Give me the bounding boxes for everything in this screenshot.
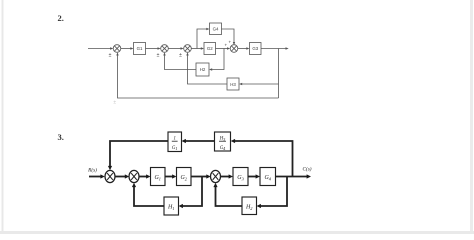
block H3/G4: [215, 132, 231, 151]
svg-text:±: ±: [157, 53, 160, 59]
block H1: [164, 197, 179, 215]
label R(s): [87, 166, 97, 173]
wire H1 pickoff down-left into H1: [179, 177, 203, 209]
wire G1 to G2: [165, 174, 177, 178]
block G2: [204, 43, 216, 55]
wire outer feedback loop to S1 bottom: [116, 52, 278, 98]
label C(s): [303, 166, 312, 173]
svg-text:±: ±: [113, 100, 116, 106]
page bottom edge shading: [0, 231, 474, 234]
wire S2 to G1: [139, 174, 151, 178]
svg-text:+: +: [224, 43, 227, 48]
wire S4 to G3: [238, 47, 250, 49]
svg-text:C(s): C(s): [303, 166, 312, 173]
svg-text:H2: H2: [245, 205, 253, 211]
faint ghost mark: [113, 100, 116, 106]
wire G1 to S2: [146, 47, 161, 49]
wire output to C(s): [276, 174, 312, 178]
block H3: [227, 78, 239, 90]
wire output pickoff down for H3 and outer loop: [278, 49, 280, 99]
wire H2 pickoff down-left: [209, 49, 224, 71]
wire H1 to S2 bottom: [132, 183, 164, 206]
block 1/G1: [168, 132, 182, 152]
wire H3 to S3 bottom: [186, 52, 227, 84]
svg-text:+: +: [228, 40, 231, 45]
problem number 2.: [58, 13, 64, 23]
svg-text:G1: G1: [172, 146, 178, 151]
sign label S1: [109, 53, 112, 59]
svg-text:G1: G1: [154, 175, 161, 181]
wire G4 to S4 top: [222, 29, 236, 45]
svg-text:±: ±: [179, 53, 182, 59]
svg-text:R(s): R(s): [87, 166, 97, 173]
summing junction S3: [211, 170, 221, 182]
wire 1/G1 to S1 top: [108, 141, 168, 170]
wire S1 to S2: [115, 174, 129, 178]
block G2: [177, 168, 192, 186]
summing junction S1: [113, 45, 121, 53]
summing junction S2: [129, 170, 139, 182]
plus sign left input S4: [224, 43, 227, 48]
wire G2 to S3: [191, 174, 211, 178]
block G1: [134, 43, 146, 55]
wire into H3: [239, 83, 279, 85]
wire top pickoff up-left into H3/G4 block: [231, 139, 293, 177]
svg-text:G4: G4: [220, 146, 226, 151]
block H2: [242, 197, 257, 215]
svg-text:H1: H1: [167, 205, 175, 211]
summing junction S3: [184, 45, 192, 53]
wire input to S1: [89, 174, 105, 178]
summing junction S1: [105, 170, 115, 182]
svg-text:G4: G4: [264, 175, 271, 181]
wire G2 to S4: [216, 47, 231, 49]
wire S3 to G3: [220, 174, 233, 178]
wire H3/G4 to 1/G1 block: [182, 139, 215, 143]
block G4: [210, 23, 222, 35]
block G1: [151, 168, 166, 186]
block H2: [196, 63, 209, 76]
block G4: [260, 168, 276, 186]
wire H2 to S3 bottom: [213, 183, 242, 206]
wire S3 to G2: [191, 47, 204, 49]
wire input to S1: [88, 47, 113, 49]
svg-text:G3: G3: [252, 46, 258, 51]
wire G3 to G4: [248, 174, 260, 178]
sign label S3: [179, 53, 182, 59]
wire S1 to G1: [121, 47, 134, 49]
wire H2 to S2 bottom: [163, 52, 196, 69]
svg-text:G2: G2: [180, 175, 187, 181]
sign label S2: [157, 53, 160, 59]
svg-text:G2: G2: [207, 46, 213, 51]
wire S2 to S3: [168, 47, 183, 49]
page left edge shading: [2, 0, 4, 231]
svg-text:G1: G1: [137, 46, 143, 51]
plus sign top input S4: [228, 40, 231, 45]
problem number 3.: [58, 132, 64, 142]
svg-text:1: 1: [173, 137, 175, 142]
svg-text:G3: G3: [237, 175, 244, 181]
page right edge shading: [470, 0, 473, 231]
block G3: [250, 43, 262, 55]
wire output: [261, 47, 289, 49]
svg-text:2.: 2.: [58, 13, 64, 23]
summing junction S4: [230, 45, 238, 53]
svg-text:3.: 3.: [58, 132, 64, 142]
svg-text:G4: G4: [213, 27, 219, 32]
svg-text:H2: H2: [200, 67, 206, 72]
svg-text:±: ±: [109, 53, 112, 59]
svg-text:H3: H3: [230, 82, 236, 87]
wire branch up to G4: [197, 28, 210, 49]
wire H2 pickoff down-left into H2: [257, 177, 288, 209]
summing junction S2: [161, 45, 169, 53]
block G3: [233, 168, 248, 186]
